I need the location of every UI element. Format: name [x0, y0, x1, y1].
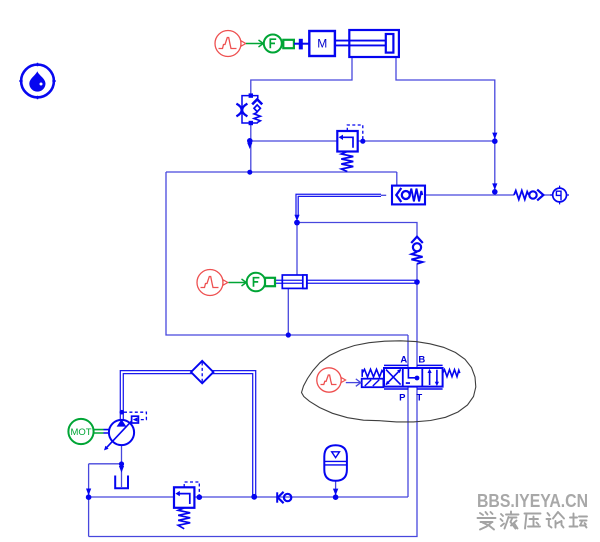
svg-text:BBS.IYEYA.CN: BBS.IYEYA.CN: [477, 491, 588, 511]
svg-text:A: A: [400, 355, 407, 366]
svg-text:M: M: [317, 37, 327, 51]
svg-text:P: P: [399, 393, 406, 404]
svg-text:T: T: [416, 393, 422, 404]
svg-text:B: B: [418, 355, 425, 366]
svg-text:MOT: MOT: [70, 427, 91, 438]
